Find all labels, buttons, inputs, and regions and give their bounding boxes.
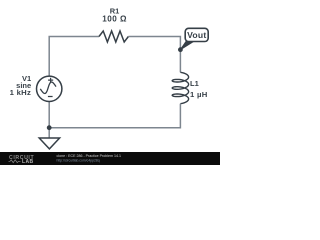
wire node to inductor top: [179, 50, 181, 73]
voltage source V1: [37, 76, 62, 101]
svg-text:LAB: LAB: [22, 159, 33, 165]
ground: [39, 138, 59, 149]
resistor R1: [99, 31, 128, 42]
svg-text:100 Ω: 100 Ω: [102, 14, 127, 23]
V1 sine glyph: [40, 82, 56, 93]
svg-text:1 kHz: 1 kHz: [10, 88, 32, 97]
wire V1 bottom to ground junction: [48, 102, 50, 139]
svg-text:http://circuitlab.com/c4pp28q: http://circuitlab.com/c4pp28q: [57, 158, 100, 162]
CircuitLab logo zigzag: [9, 160, 21, 163]
footer bar: [0, 152, 220, 165]
Vout callout tail: [180, 42, 193, 50]
wire top-left: V1 top to resistor: [49, 37, 99, 77]
V1 plus sign: [48, 78, 53, 83]
node at ground junction: [47, 125, 52, 130]
V1 minus sign: [48, 96, 53, 98]
wire resistor to right rail corner: [128, 37, 180, 50]
node at Vout: [178, 47, 183, 52]
svg-text:Vout: Vout: [187, 30, 206, 40]
Vout label box: [185, 28, 208, 41]
svg-text:L1: L1: [190, 79, 199, 88]
wire inductor bottom to bottom rail: [49, 104, 180, 128]
inductor L1: [172, 72, 188, 103]
svg-text:1 µH: 1 µH: [190, 90, 208, 99]
